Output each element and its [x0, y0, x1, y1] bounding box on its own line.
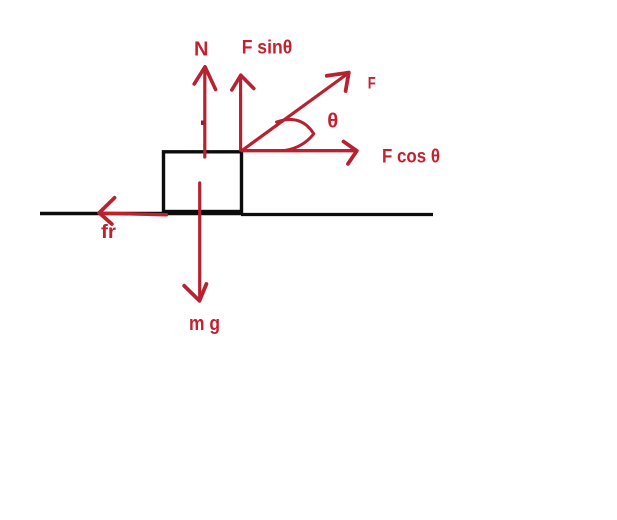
arrow F head	[327, 73, 349, 91]
arrow N head	[194, 67, 215, 90]
arrow F sin theta head	[232, 75, 254, 90]
ground line left segment	[40, 212, 241, 215]
arrow F cos theta shaft	[243, 149, 356, 152]
arrow F shaft	[242, 73, 349, 151]
theta angle arc	[277, 119, 314, 150]
arrow m g head	[184, 284, 206, 301]
svg-text:F cos θ: F cos θ	[382, 145, 440, 167]
svg-text:F sinθ: F sinθ	[242, 37, 293, 59]
arrow fr shaft	[101, 213, 167, 215]
svg-text:θ: θ	[327, 110, 338, 132]
small red dot on N shaft	[201, 121, 204, 126]
svg-text:F: F	[368, 73, 376, 92]
arrow m g shaft	[198, 183, 201, 300]
svg-text:fr: fr	[101, 222, 117, 243]
arrow N shaft	[203, 68, 206, 158]
arrow F cos theta head	[344, 142, 357, 164]
ground line right segment	[241, 213, 433, 216]
arrow fr head	[99, 198, 114, 224]
svg-text:N: N	[194, 39, 208, 61]
svg-text:m g: m g	[189, 313, 220, 335]
arrow F sin theta shaft	[239, 76, 242, 150]
block	[164, 152, 242, 212]
